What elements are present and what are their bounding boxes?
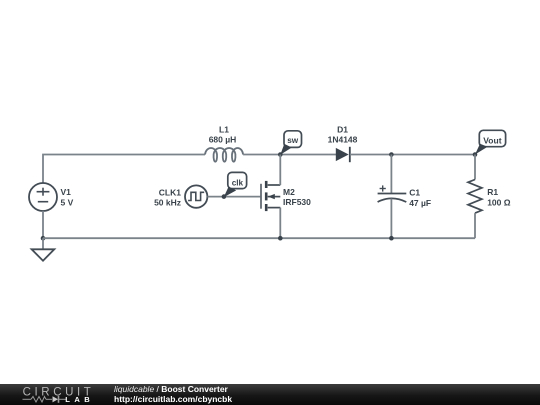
svg-text:M2: M2	[283, 187, 295, 197]
label CLK1 value	[154, 187, 181, 207]
wire V1 bottom to bottom rail	[42, 211, 44, 238]
label C1 value	[409, 188, 431, 208]
resistor R1	[468, 155, 482, 239]
svg-text:R1: R1	[487, 187, 498, 197]
wire M2 source to bottom rail	[279, 208, 281, 239]
node Vout label box	[475, 130, 506, 154]
bottom rail wire right segment to R1	[391, 237, 475, 239]
svg-text:clk: clk	[232, 178, 244, 187]
label R1 value	[487, 187, 511, 208]
junction dot at M2 source rail	[278, 236, 283, 241]
wire L1 to node sw	[243, 154, 280, 156]
svg-text:sw: sw	[287, 136, 299, 145]
wire node sw to diode D1 anode	[280, 154, 336, 156]
transistor M2 NMOS	[261, 181, 280, 211]
voltage source V1	[29, 183, 57, 211]
svg-text:D1: D1	[337, 124, 348, 134]
node clk label box	[224, 172, 247, 197]
wire CLK1 to M2 gate	[207, 196, 260, 198]
junction dot at V1 bottom rail	[41, 236, 46, 241]
label L1 value	[209, 125, 237, 145]
junction dot at C1 top	[389, 152, 394, 157]
svg-text:47 µF: 47 µF	[409, 198, 431, 208]
svg-text:680 µH: 680 µH	[209, 135, 237, 145]
svg-text:100 Ω: 100 Ω	[487, 198, 511, 208]
svg-text:L1: L1	[219, 125, 229, 135]
label D1 value	[328, 124, 358, 144]
svg-text:Vout: Vout	[483, 135, 501, 145]
svg-text:50 kHz: 50 kHz	[154, 198, 181, 208]
clock source CLK1	[185, 185, 207, 207]
footer bar	[0, 384, 540, 405]
bottom rail wire	[43, 237, 391, 239]
junction dot at clk node	[222, 194, 227, 199]
ground	[32, 238, 55, 261]
svg-text:V1: V1	[61, 187, 72, 197]
junction dot at node sw	[278, 152, 283, 157]
capacitor C1	[378, 155, 407, 239]
label M2 value	[283, 187, 311, 207]
svg-text:CLK1: CLK1	[159, 187, 181, 197]
label V1 value	[61, 187, 74, 208]
CircuitLab logo	[0, 384, 110, 405]
node sw label box	[280, 131, 301, 155]
svg-text:IRF530: IRF530	[283, 197, 311, 207]
svg-text:C1: C1	[409, 188, 420, 198]
wire M2 drain to sw node	[279, 155, 281, 186]
footer title text	[114, 385, 232, 404]
svg-text:5 V: 5 V	[61, 197, 74, 207]
svg-text:LAB: LAB	[65, 395, 94, 404]
wire top rail left from V1 to L1	[43, 155, 205, 184]
wire D1 cathode to C1 top junction	[350, 154, 392, 156]
inductor L1	[205, 148, 243, 162]
junction dot at C1 bottom	[389, 236, 394, 241]
wire C1 junction to Vout node	[391, 154, 475, 156]
diode D1	[336, 147, 350, 162]
svg-text:1N4148: 1N4148	[328, 134, 358, 144]
junction dot at Vout node	[473, 152, 478, 157]
